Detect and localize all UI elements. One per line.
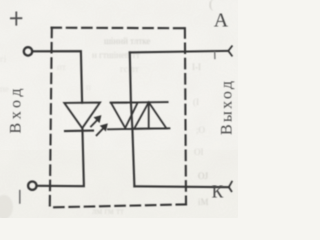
main line work <box>11 12 232 207</box>
terminal fork A <box>228 46 232 56</box>
svg-text:К: К <box>212 182 224 202</box>
photothyristor: top bar <box>111 101 168 104</box>
wire: down from A corner to thyristor <box>130 52 131 102</box>
input terminal top-left circle <box>24 47 32 55</box>
svg-text:іМ: іМ <box>198 197 209 207</box>
input terminal bottom-left circle <box>28 182 36 190</box>
svg-text:ОІ: ОІ <box>194 147 204 157</box>
photothyristor: bottom bar <box>108 128 169 129</box>
svg-text:(: ( <box>209 0 213 11</box>
LED emitter: cathode bar <box>65 130 93 132</box>
wire: LED cathode to bottom terminal <box>38 128 84 186</box>
minus polarity mark <box>19 191 21 203</box>
dashed optocoupler case: bottom edge <box>50 204 186 207</box>
wire: output A horizontal <box>130 51 229 53</box>
paper background <box>0 0 238 218</box>
bleed-through text artifacts <box>0 0 213 219</box>
light arrow 2 <box>97 124 107 135</box>
svg-text:п: п <box>86 82 91 92</box>
terminal fork K <box>229 182 232 192</box>
light arrow 1 <box>91 116 101 127</box>
wire: top input terminal to LED anode <box>34 51 82 102</box>
svg-text:лм гм тт: лм гм тт <box>92 206 124 216</box>
photothyristor: centre gate line <box>148 102 150 128</box>
svg-text:;О: ;О <box>196 125 206 135</box>
svg-text:гі: гі <box>0 54 7 64</box>
wire: through thyristor symbol <box>131 103 133 129</box>
svg-text:(І: (І <box>193 97 199 107</box>
svg-text:пт: пт <box>57 62 66 72</box>
svg-text:А: А <box>214 9 229 31</box>
photothyristor: right triangle (up) <box>134 102 166 128</box>
plus polarity label <box>11 12 22 24</box>
svg-text:Выход: Выход <box>219 81 236 135</box>
svg-text:шіннй тлтке: шіннй тлтке <box>104 36 150 46</box>
dashed optocoupler case: top edge <box>52 27 185 30</box>
svg-text:І-І: І-І <box>192 62 201 72</box>
dashed optocoupler case: left edge <box>50 28 52 208</box>
LED emitter: anode triangle <box>64 103 100 129</box>
wire: output K horizontal <box>134 185 229 188</box>
dashed optocoupler case: right edge <box>185 28 186 204</box>
svg-text:ОЈ: ОЈ <box>198 171 208 181</box>
wire: thyristor to K corner <box>132 129 134 187</box>
photothyristor: left triangle (down) <box>111 103 138 129</box>
pin tick below A wire <box>214 52 216 58</box>
